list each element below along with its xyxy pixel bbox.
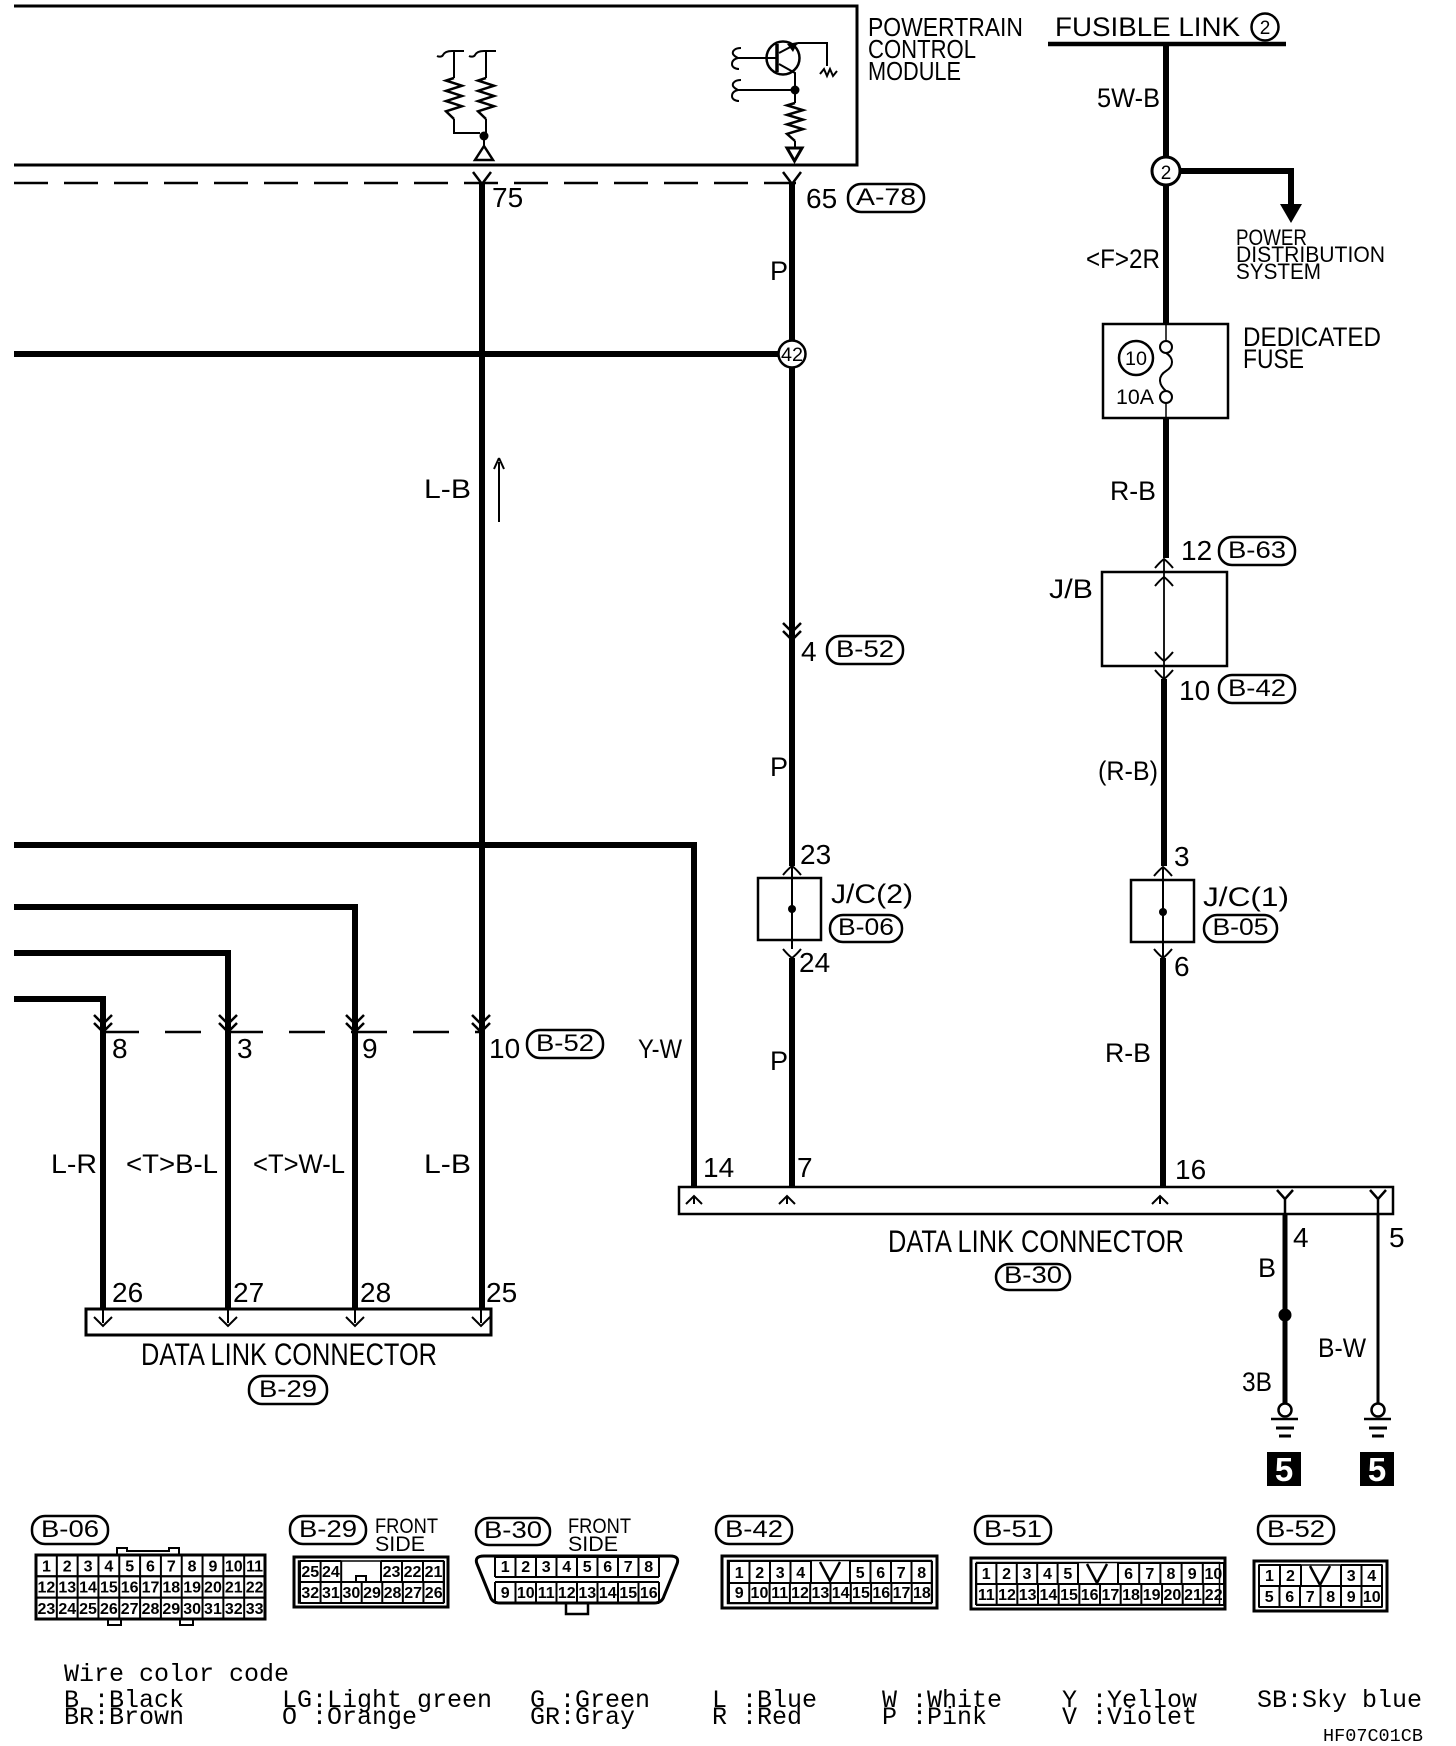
connector view B-30	[476, 1515, 678, 1614]
svg-text:11: 11	[538, 1585, 555, 1602]
svg-text:B-51: B-51	[984, 1516, 1042, 1543]
svg-text:28: 28	[142, 1601, 160, 1618]
ground (wire B)	[1271, 1404, 1298, 1437]
svg-text:20: 20	[1163, 1587, 1181, 1604]
svg-text:9: 9	[1347, 1589, 1356, 1606]
wire R-B (J/C(1) to DLC pin 16)	[1160, 958, 1166, 1187]
svg-text:J/C(2): J/C(2)	[831, 879, 913, 909]
svg-text:42: 42	[781, 345, 803, 366]
wire thin through J/C(1)	[1162, 867, 1164, 958]
connector ref (B-30)	[996, 1262, 1070, 1290]
svg-text:V :Violet: V :Violet	[1062, 1703, 1197, 1732]
svg-text:P: P	[770, 752, 788, 782]
svg-text:13: 13	[811, 1585, 829, 1602]
svg-text:12: 12	[791, 1585, 809, 1602]
svg-text:10: 10	[489, 1033, 520, 1064]
svg-text:17: 17	[142, 1580, 160, 1597]
connector ref (B-42)	[1219, 675, 1295, 703]
svg-text:22: 22	[404, 1564, 422, 1581]
terminal triangle at pin 65	[787, 148, 802, 161]
svg-text:FUSE: FUSE	[1243, 344, 1304, 374]
svg-text:B-30: B-30	[1004, 1262, 1062, 1289]
svg-text:21: 21	[425, 1564, 443, 1581]
svg-text:B-42: B-42	[725, 1516, 783, 1543]
svg-text:10: 10	[751, 1585, 769, 1602]
svg-text:5: 5	[583, 1559, 592, 1576]
svg-text:8: 8	[1326, 1589, 1335, 1606]
resistor R-b (PCM internal pull-up)	[469, 51, 496, 133]
svg-text:23: 23	[800, 839, 831, 870]
svg-text:DATA LINK CONNECTOR: DATA LINK CONNECTOR	[888, 1223, 1184, 1259]
svg-text:<T>B-L: <T>B-L	[126, 1149, 218, 1179]
svg-text:3: 3	[84, 1558, 93, 1575]
svg-text:5: 5	[856, 1565, 865, 1582]
wire thin through J/C(2)	[791, 866, 793, 949]
svg-text:Y-W: Y-W	[638, 1034, 682, 1064]
connector ref (B-05)	[1204, 914, 1277, 942]
svg-text:10A: 10A	[1116, 386, 1154, 409]
label DEDICATED FUSE	[1243, 322, 1381, 374]
svg-text:20: 20	[204, 1580, 222, 1597]
svg-text:1: 1	[982, 1566, 991, 1583]
svg-text:30: 30	[343, 1585, 361, 1602]
svg-text:13: 13	[1019, 1587, 1037, 1604]
connector ref (A-78)	[848, 184, 924, 212]
page reference 5 (left)	[1267, 1451, 1301, 1488]
connector ref (B-52) middle	[827, 636, 903, 664]
svg-text:GR:Gray: GR:Gray	[530, 1703, 635, 1732]
svg-text:B: B	[1258, 1253, 1276, 1283]
svg-text:12: 12	[558, 1585, 576, 1602]
connector view B-06	[32, 1516, 265, 1625]
svg-text:14: 14	[703, 1152, 734, 1183]
svg-text:3: 3	[1023, 1566, 1032, 1583]
svg-text:SYSTEM: SYSTEM	[1236, 259, 1321, 284]
svg-text:P :Pink: P :Pink	[882, 1703, 987, 1732]
direction arrow (up) on L-B wire	[494, 458, 504, 522]
node (junction of pull-up resistors)	[480, 132, 489, 141]
svg-text:12: 12	[38, 1580, 56, 1597]
svg-text:8: 8	[644, 1559, 653, 1576]
svg-text:29: 29	[363, 1585, 381, 1602]
svg-text:6: 6	[146, 1558, 155, 1575]
node dot in J/C(1)	[1159, 908, 1167, 916]
svg-text:19: 19	[183, 1580, 201, 1597]
svg-text:L-R: L-R	[51, 1149, 97, 1179]
wire horizontal to node 42	[14, 351, 779, 357]
svg-text:4: 4	[796, 1565, 805, 1582]
svg-text:6: 6	[1285, 1589, 1294, 1606]
svg-text:B-52: B-52	[1267, 1516, 1325, 1543]
svg-text:8: 8	[1167, 1566, 1176, 1583]
svg-text:P: P	[770, 1046, 788, 1076]
wire thin through J/B	[1163, 559, 1165, 679]
svg-text:3: 3	[1347, 1568, 1356, 1585]
resistor R-c (emitter resistor)	[787, 94, 803, 148]
svg-text:24: 24	[58, 1601, 76, 1618]
svg-text:11: 11	[771, 1585, 788, 1602]
svg-text:10: 10	[517, 1585, 535, 1602]
junction connector J/C(2) box	[758, 878, 821, 940]
svg-text:22: 22	[246, 1580, 264, 1597]
connector B-52 pin 4 chevrons	[783, 623, 801, 640]
wire (T)W-L (to pin 9 / 28)	[14, 907, 355, 1309]
svg-text:<T>W-L: <T>W-L	[253, 1149, 345, 1179]
label POWER DISTRIBUTION SYSTEM	[1236, 225, 1385, 284]
connector ref (B-63)	[1219, 537, 1295, 565]
node dot in J/C(2)	[788, 905, 796, 913]
svg-text:2: 2	[1161, 163, 1172, 184]
svg-text:10: 10	[1205, 1566, 1223, 1583]
svg-text:18: 18	[162, 1580, 180, 1597]
svg-text:DATA LINK CONNECTOR: DATA LINK CONNECTOR	[141, 1336, 437, 1372]
wire (R-B) (J/B to J/C(1))	[1161, 679, 1167, 866]
connector ref (B-06)	[830, 914, 902, 942]
svg-text:33: 33	[246, 1601, 264, 1618]
svg-text:4: 4	[1367, 1568, 1376, 1585]
svg-text:10: 10	[225, 1558, 243, 1575]
svg-text:B-W: B-W	[1318, 1333, 1366, 1363]
pin 6 fork	[1154, 949, 1172, 958]
svg-text:R-B: R-B	[1105, 1038, 1151, 1068]
svg-text:6: 6	[876, 1565, 885, 1582]
svg-text:HF07C01CB: HF07C01CB	[1323, 1727, 1423, 1746]
svg-text:9: 9	[209, 1558, 218, 1575]
wire color code legend	[64, 1660, 1422, 1732]
svg-text:16: 16	[121, 1580, 139, 1597]
svg-text:18: 18	[1122, 1587, 1140, 1604]
junction connector J/C(1) box	[1131, 880, 1194, 942]
svg-text:13: 13	[58, 1580, 76, 1597]
svg-text:10: 10	[1179, 675, 1210, 706]
svg-text:7: 7	[797, 1152, 813, 1183]
svg-text:2: 2	[1260, 18, 1271, 39]
svg-text:FUSIBLE LINK: FUSIBLE LINK	[1055, 12, 1240, 42]
svg-text:24: 24	[799, 947, 830, 978]
connector view B-42	[716, 1516, 937, 1608]
connector view B-51	[971, 1516, 1225, 1609]
connector A-78 dashed line	[14, 182, 796, 185]
svg-text:10: 10	[1363, 1589, 1381, 1606]
svg-text:4: 4	[801, 636, 817, 667]
svg-text:16: 16	[872, 1585, 890, 1602]
svg-text:12: 12	[1181, 535, 1212, 566]
svg-text:3B: 3B	[1242, 1367, 1272, 1397]
svg-text:5: 5	[1389, 1222, 1405, 1253]
svg-text:32: 32	[301, 1585, 319, 1602]
node 42 (numbered junction)	[779, 341, 806, 368]
pin 12 fork	[1155, 559, 1173, 586]
svg-text:17: 17	[893, 1585, 911, 1602]
powertrain control module box	[14, 6, 857, 165]
svg-text:1: 1	[501, 1559, 510, 1576]
svg-text:4: 4	[1293, 1222, 1309, 1253]
svg-text:28: 28	[360, 1277, 391, 1308]
wire B (pin 4 to ground)	[1283, 1213, 1288, 1403]
svg-text:3: 3	[237, 1033, 253, 1064]
svg-text:3: 3	[776, 1565, 785, 1582]
branch arrow to power distribution system	[1180, 168, 1302, 223]
svg-text:15: 15	[619, 1585, 637, 1602]
svg-text:P: P	[770, 256, 788, 286]
wire R-B (fuse to J/B)	[1163, 418, 1169, 558]
fusible link bus bar	[1048, 42, 1286, 47]
svg-text:1: 1	[735, 1565, 744, 1582]
junction block J/B box	[1102, 572, 1227, 666]
svg-text:R-B: R-B	[1110, 476, 1156, 506]
pin 65 arrow	[783, 172, 801, 184]
svg-text:31: 31	[204, 1601, 222, 1618]
transistor Q (PCM driver)	[767, 42, 838, 89]
pin 3 fork	[1154, 867, 1172, 876]
wire 5W-B	[1163, 44, 1169, 157]
svg-text:11: 11	[978, 1587, 995, 1604]
svg-text:SB:Sky blue: SB:Sky blue	[1257, 1686, 1422, 1715]
svg-text:SIDE: SIDE	[568, 1533, 618, 1556]
page reference 5 (right)	[1360, 1451, 1394, 1488]
node 2 (numbered junction)	[1152, 157, 1180, 185]
connector ref (B-52) left	[527, 1030, 603, 1058]
svg-text:18: 18	[913, 1585, 931, 1602]
svg-text:A-78: A-78	[856, 184, 916, 211]
svg-text:L-B: L-B	[424, 1149, 471, 1179]
svg-text:28: 28	[384, 1585, 402, 1602]
svg-text:5: 5	[1368, 1451, 1386, 1488]
svg-text:32: 32	[225, 1601, 243, 1618]
svg-text:6: 6	[1174, 951, 1190, 982]
wire P upper (pin 65 to node 42)	[789, 184, 795, 341]
svg-text:4: 4	[104, 1558, 113, 1575]
pin 9 chevrons	[346, 1015, 364, 1032]
svg-text:14: 14	[79, 1580, 97, 1597]
resistor R-a (PCM internal pull-up)	[437, 51, 480, 133]
svg-text:27: 27	[404, 1585, 422, 1602]
svg-text:14: 14	[599, 1585, 617, 1602]
svg-text:B-52: B-52	[536, 1030, 594, 1057]
svg-text:19: 19	[1143, 1587, 1161, 1604]
svg-text:9: 9	[362, 1033, 378, 1064]
data link connector B-29 box	[86, 1309, 491, 1335]
svg-text:3: 3	[1174, 841, 1190, 872]
node on wire B	[1279, 1309, 1292, 1322]
svg-text:(R-B): (R-B)	[1098, 756, 1158, 786]
svg-text:15: 15	[100, 1580, 118, 1597]
connector ref (B-29)	[249, 1376, 327, 1404]
svg-text:22: 22	[1205, 1587, 1223, 1604]
svg-text:Wire color code: Wire color code	[64, 1660, 289, 1689]
svg-text:11: 11	[246, 1558, 263, 1575]
svg-text:B-29: B-29	[259, 1376, 317, 1403]
svg-text:14: 14	[1039, 1587, 1057, 1604]
svg-text:J/B: J/B	[1049, 574, 1093, 604]
wire L-B vertical (pin 75 to pin 25)	[479, 184, 485, 1309]
svg-text:2: 2	[755, 1565, 764, 1582]
svg-text:BR:Brown: BR:Brown	[64, 1703, 184, 1732]
svg-text:B-42: B-42	[1228, 675, 1286, 702]
wire L-R (to pin 8 / 26)	[14, 999, 103, 1309]
svg-text:5: 5	[1265, 1589, 1274, 1606]
svg-text:7: 7	[897, 1565, 906, 1582]
svg-text:5W-B: 5W-B	[1097, 83, 1160, 113]
label POWERTRAIN CONTROL MODULE	[868, 12, 1023, 86]
wire P (node 42 down to J/C(2))	[789, 368, 795, 866]
svg-text:21: 21	[225, 1580, 243, 1597]
svg-text:26: 26	[100, 1601, 118, 1618]
svg-text:SIDE: SIDE	[375, 1533, 425, 1556]
svg-text:5: 5	[1275, 1451, 1293, 1488]
circled 2 (fusible link number)	[1252, 14, 1279, 41]
hook input to transistor base	[732, 48, 777, 69]
pin 10 fork	[1155, 652, 1173, 679]
node (emitter junction)	[791, 86, 800, 95]
svg-text:29: 29	[162, 1601, 180, 1618]
svg-text:16: 16	[1175, 1154, 1206, 1185]
svg-text:9: 9	[735, 1585, 744, 1602]
svg-text:23: 23	[38, 1601, 56, 1618]
svg-text:4: 4	[562, 1559, 571, 1576]
pin 23 fork	[783, 866, 801, 875]
svg-text:8: 8	[917, 1565, 926, 1582]
svg-text:7: 7	[624, 1559, 633, 1576]
pin 8 chevrons	[94, 1015, 112, 1032]
pin 3 chevrons	[219, 1015, 237, 1032]
svg-text:9: 9	[1188, 1566, 1197, 1583]
svg-text:75: 75	[492, 182, 523, 213]
svg-text:B-06: B-06	[41, 1516, 99, 1543]
ground (wire B-W)	[1364, 1404, 1391, 1437]
svg-text:25: 25	[486, 1277, 517, 1308]
svg-text:14: 14	[832, 1585, 850, 1602]
wire (T)B-L (to pin 3 / 27)	[14, 953, 228, 1309]
wire B-W (pin 5 to ground)	[1377, 1213, 1380, 1403]
svg-text:25: 25	[79, 1601, 97, 1618]
svg-text:2: 2	[1286, 1568, 1295, 1585]
svg-text:21: 21	[1184, 1587, 1202, 1604]
svg-text:8: 8	[188, 1558, 197, 1575]
svg-text:7: 7	[167, 1558, 176, 1575]
svg-text:B-52: B-52	[836, 636, 894, 663]
svg-text:17: 17	[1101, 1587, 1119, 1604]
svg-text:B-30: B-30	[484, 1517, 542, 1544]
svg-text:30: 30	[183, 1601, 201, 1618]
svg-text:2: 2	[63, 1558, 72, 1575]
svg-text:5: 5	[125, 1558, 134, 1575]
svg-text:13: 13	[578, 1585, 596, 1602]
svg-text:15: 15	[1060, 1587, 1078, 1604]
svg-text:B-05: B-05	[1213, 914, 1269, 941]
svg-text:4: 4	[1043, 1566, 1052, 1583]
svg-text:O :Orange: O :Orange	[282, 1703, 417, 1732]
svg-text:L-B: L-B	[424, 474, 471, 504]
svg-text:9: 9	[501, 1585, 510, 1602]
svg-text:65: 65	[806, 183, 837, 214]
svg-text:3: 3	[542, 1559, 551, 1576]
svg-text:16: 16	[1081, 1587, 1099, 1604]
svg-text:1: 1	[42, 1558, 51, 1575]
svg-text:23: 23	[383, 1564, 401, 1581]
svg-text:31: 31	[322, 1585, 340, 1602]
connector view B-52	[1254, 1516, 1387, 1611]
data link connector B-30 box	[679, 1187, 1393, 1214]
wire P lower (J/C(2) to DLC pin 7)	[789, 958, 795, 1187]
svg-text:25: 25	[301, 1564, 319, 1581]
terminal triangle at pin 75	[475, 140, 493, 160]
svg-text:B-29: B-29	[299, 1516, 357, 1543]
svg-text:27: 27	[233, 1277, 264, 1308]
svg-text:6: 6	[1124, 1566, 1133, 1583]
svg-text:26: 26	[112, 1277, 143, 1308]
svg-text:12: 12	[998, 1587, 1016, 1604]
svg-text:7: 7	[1306, 1589, 1315, 1606]
svg-text:6: 6	[603, 1559, 612, 1576]
svg-text:2: 2	[1002, 1566, 1011, 1583]
svg-text:B-06: B-06	[838, 914, 894, 941]
wire (F)2R	[1163, 185, 1169, 324]
connector view B-29	[290, 1515, 448, 1607]
svg-text:24: 24	[322, 1564, 340, 1581]
svg-text:15: 15	[852, 1585, 870, 1602]
svg-text:27: 27	[121, 1601, 139, 1618]
connector B-52 dashed line (left)	[103, 1031, 481, 1034]
svg-text:<F>2R: <F>2R	[1086, 244, 1160, 274]
svg-text:2: 2	[521, 1559, 530, 1576]
pin 24 fork	[783, 949, 801, 958]
svg-text:5: 5	[1063, 1566, 1072, 1583]
hook input to emitter node	[732, 80, 791, 101]
svg-text:10: 10	[1125, 349, 1147, 370]
dedicated fuse (10A) box	[1103, 324, 1228, 418]
svg-text:7: 7	[1145, 1566, 1154, 1583]
svg-text:16: 16	[640, 1585, 658, 1602]
svg-text:26: 26	[425, 1585, 443, 1602]
pin 10 chevrons	[472, 1015, 490, 1032]
svg-text:MODULE: MODULE	[868, 56, 961, 86]
svg-text:R :Red: R :Red	[712, 1703, 802, 1732]
svg-text:1: 1	[1265, 1568, 1274, 1585]
pin 75 arrow	[473, 172, 491, 184]
svg-text:J/C(1): J/C(1)	[1203, 882, 1289, 912]
svg-text:8: 8	[112, 1033, 128, 1064]
wire Y-W (to DLC pin 14)	[14, 845, 694, 1187]
svg-text:B-63: B-63	[1228, 537, 1286, 564]
